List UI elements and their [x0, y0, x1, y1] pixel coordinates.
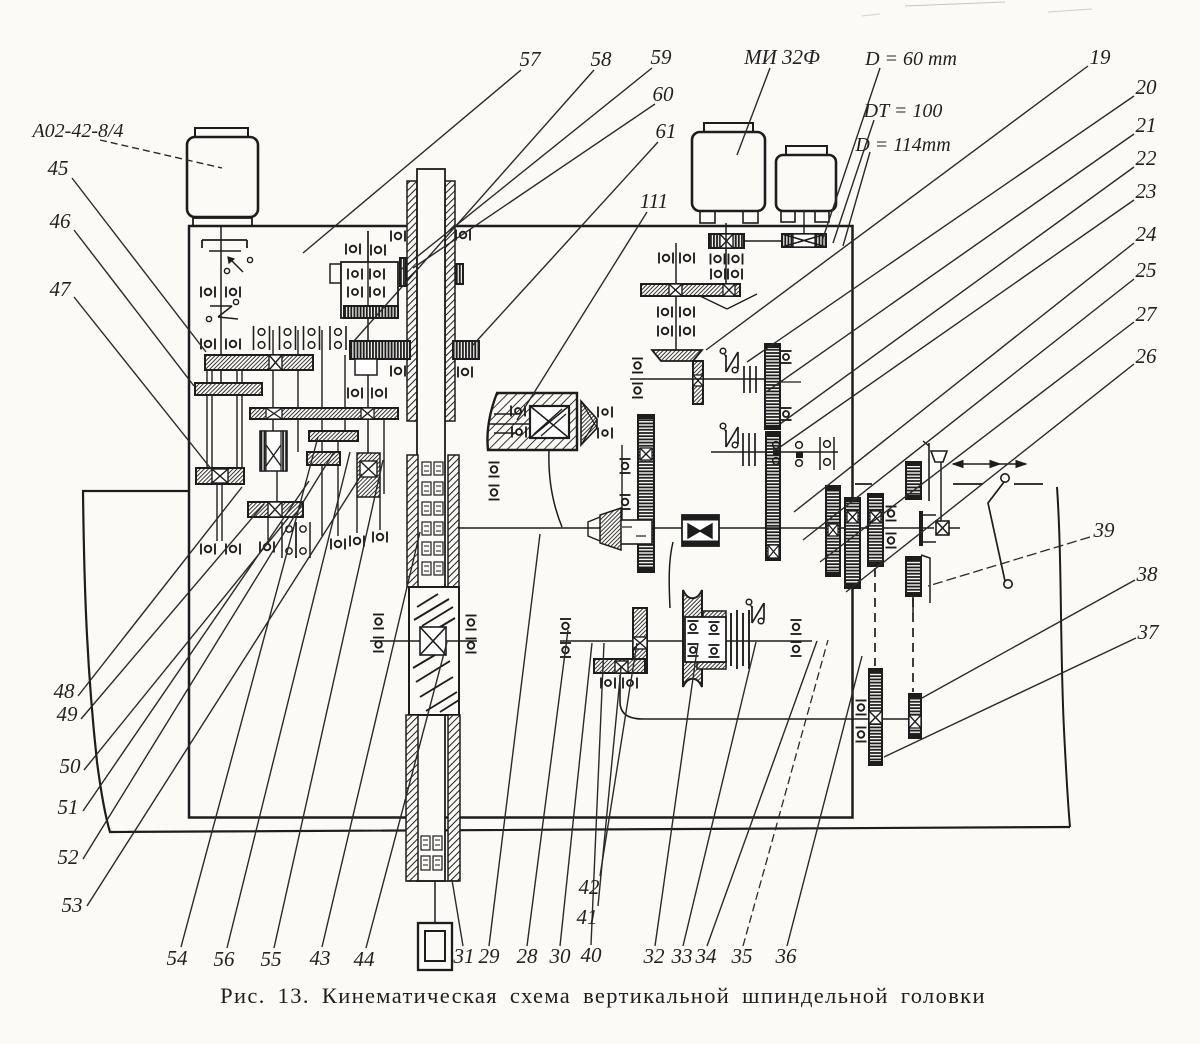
svg-text:53: 53 — [62, 893, 83, 917]
svg-text:DT = 100: DT = 100 — [863, 100, 943, 122]
svg-text:28: 28 — [517, 944, 539, 968]
svg-text:59: 59 — [651, 45, 673, 69]
svg-text:D = 114mm: D = 114mm — [854, 134, 950, 156]
svg-text:31: 31 — [453, 944, 475, 968]
svg-text:36: 36 — [775, 944, 798, 968]
svg-text:50: 50 — [60, 754, 82, 778]
svg-text:49: 49 — [57, 702, 79, 726]
svg-text:D = 60 mm: D = 60 mm — [864, 48, 957, 70]
svg-text:30: 30 — [549, 944, 572, 968]
svg-text:39: 39 — [1093, 518, 1116, 542]
svg-text:24: 24 — [1136, 222, 1158, 246]
svg-text:54: 54 — [167, 946, 189, 970]
svg-text:МИ 32Ф: МИ 32Ф — [743, 45, 820, 69]
svg-text:52: 52 — [58, 845, 80, 869]
svg-text:45: 45 — [48, 156, 69, 180]
svg-text:58: 58 — [591, 47, 613, 71]
svg-text:Рис. 13. Кинематическая схема: Рис. 13. Кинематическая схема вертикальн… — [220, 983, 986, 1008]
svg-text:57: 57 — [520, 47, 543, 71]
svg-text:29: 29 — [479, 944, 501, 968]
svg-text:44: 44 — [354, 947, 376, 971]
svg-text:35: 35 — [731, 944, 753, 968]
svg-text:56: 56 — [214, 947, 236, 971]
svg-text:26: 26 — [1136, 344, 1158, 368]
svg-text:33: 33 — [671, 944, 693, 968]
svg-text:27: 27 — [1136, 302, 1159, 326]
svg-text:41: 41 — [577, 905, 598, 929]
svg-text:22: 22 — [1136, 146, 1158, 170]
svg-text:32: 32 — [643, 944, 666, 968]
svg-text:19: 19 — [1090, 45, 1112, 69]
svg-text:51: 51 — [58, 795, 79, 819]
svg-text:37: 37 — [1137, 620, 1161, 644]
svg-text:43: 43 — [310, 946, 331, 970]
svg-text:48: 48 — [54, 679, 76, 703]
svg-text:61: 61 — [656, 119, 677, 143]
svg-text:20: 20 — [1136, 75, 1158, 99]
svg-text:21: 21 — [1136, 113, 1157, 137]
svg-text:60: 60 — [653, 82, 675, 106]
svg-text:40: 40 — [581, 943, 603, 967]
svg-text:42: 42 — [579, 875, 601, 899]
svg-text:46: 46 — [50, 209, 72, 233]
svg-text:47: 47 — [50, 277, 73, 301]
svg-text:111: 111 — [640, 189, 668, 213]
svg-text:25: 25 — [1136, 258, 1157, 282]
svg-text:34: 34 — [695, 944, 718, 968]
svg-text:38: 38 — [1136, 562, 1159, 586]
svg-text:A02-42-8/4: A02-42-8/4 — [30, 120, 123, 142]
svg-text:23: 23 — [1136, 179, 1157, 203]
svg-text:55: 55 — [261, 947, 282, 971]
